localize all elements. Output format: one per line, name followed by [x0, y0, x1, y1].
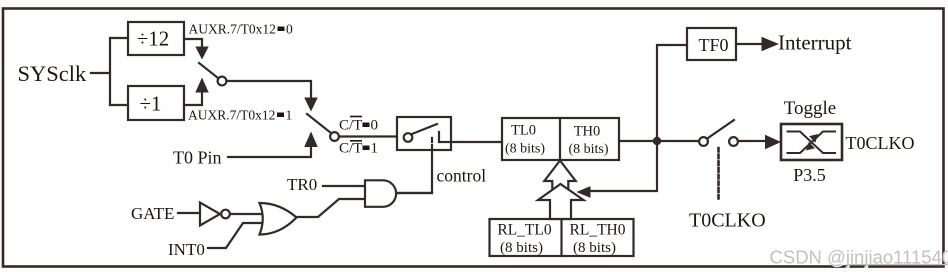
svg-text:1: 1 [371, 141, 379, 157]
svg-text:TL0: TL0 [511, 123, 536, 139]
svg-text:TH0: TH0 [574, 124, 601, 140]
svg-text:0: 0 [371, 118, 379, 134]
svg-text:AUXR.7/T0x12: AUXR.7/T0x12 [189, 22, 276, 37]
svg-text:RL_TL0: RL_TL0 [497, 222, 551, 239]
svg-text:1: 1 [286, 108, 293, 123]
svg-text:÷12: ÷12 [137, 27, 170, 51]
svg-text:Interrupt: Interrupt [778, 31, 852, 55]
svg-text:C/T: C/T [339, 118, 362, 134]
svg-text:RL_TH0: RL_TH0 [570, 222, 626, 239]
svg-text:(8 bits): (8 bits) [500, 240, 543, 256]
svg-text:T0CLKO: T0CLKO [689, 210, 766, 232]
svg-text:INT0: INT0 [168, 240, 205, 259]
svg-text:P3.5: P3.5 [793, 165, 826, 185]
svg-text:GATE: GATE [131, 204, 174, 223]
svg-text:control: control [437, 166, 487, 186]
svg-text:C/T: C/T [339, 141, 362, 157]
svg-text:0: 0 [286, 22, 293, 37]
svg-text:T0 Pin: T0 Pin [173, 148, 222, 168]
svg-text:T0CLKO: T0CLKO [846, 133, 915, 153]
svg-text:TR0: TR0 [287, 175, 317, 194]
svg-text:(8 bits): (8 bits) [505, 142, 545, 157]
svg-text:(8 bits): (8 bits) [568, 142, 608, 157]
svg-text:Toggle: Toggle [784, 98, 837, 119]
svg-text:SYSclk: SYSclk [18, 61, 88, 86]
svg-text:÷1: ÷1 [139, 92, 161, 116]
svg-text:TF0: TF0 [698, 35, 728, 55]
svg-text:(8 bits): (8 bits) [573, 240, 616, 256]
svg-text:AUXR.7/T0x12: AUXR.7/T0x12 [188, 108, 275, 123]
